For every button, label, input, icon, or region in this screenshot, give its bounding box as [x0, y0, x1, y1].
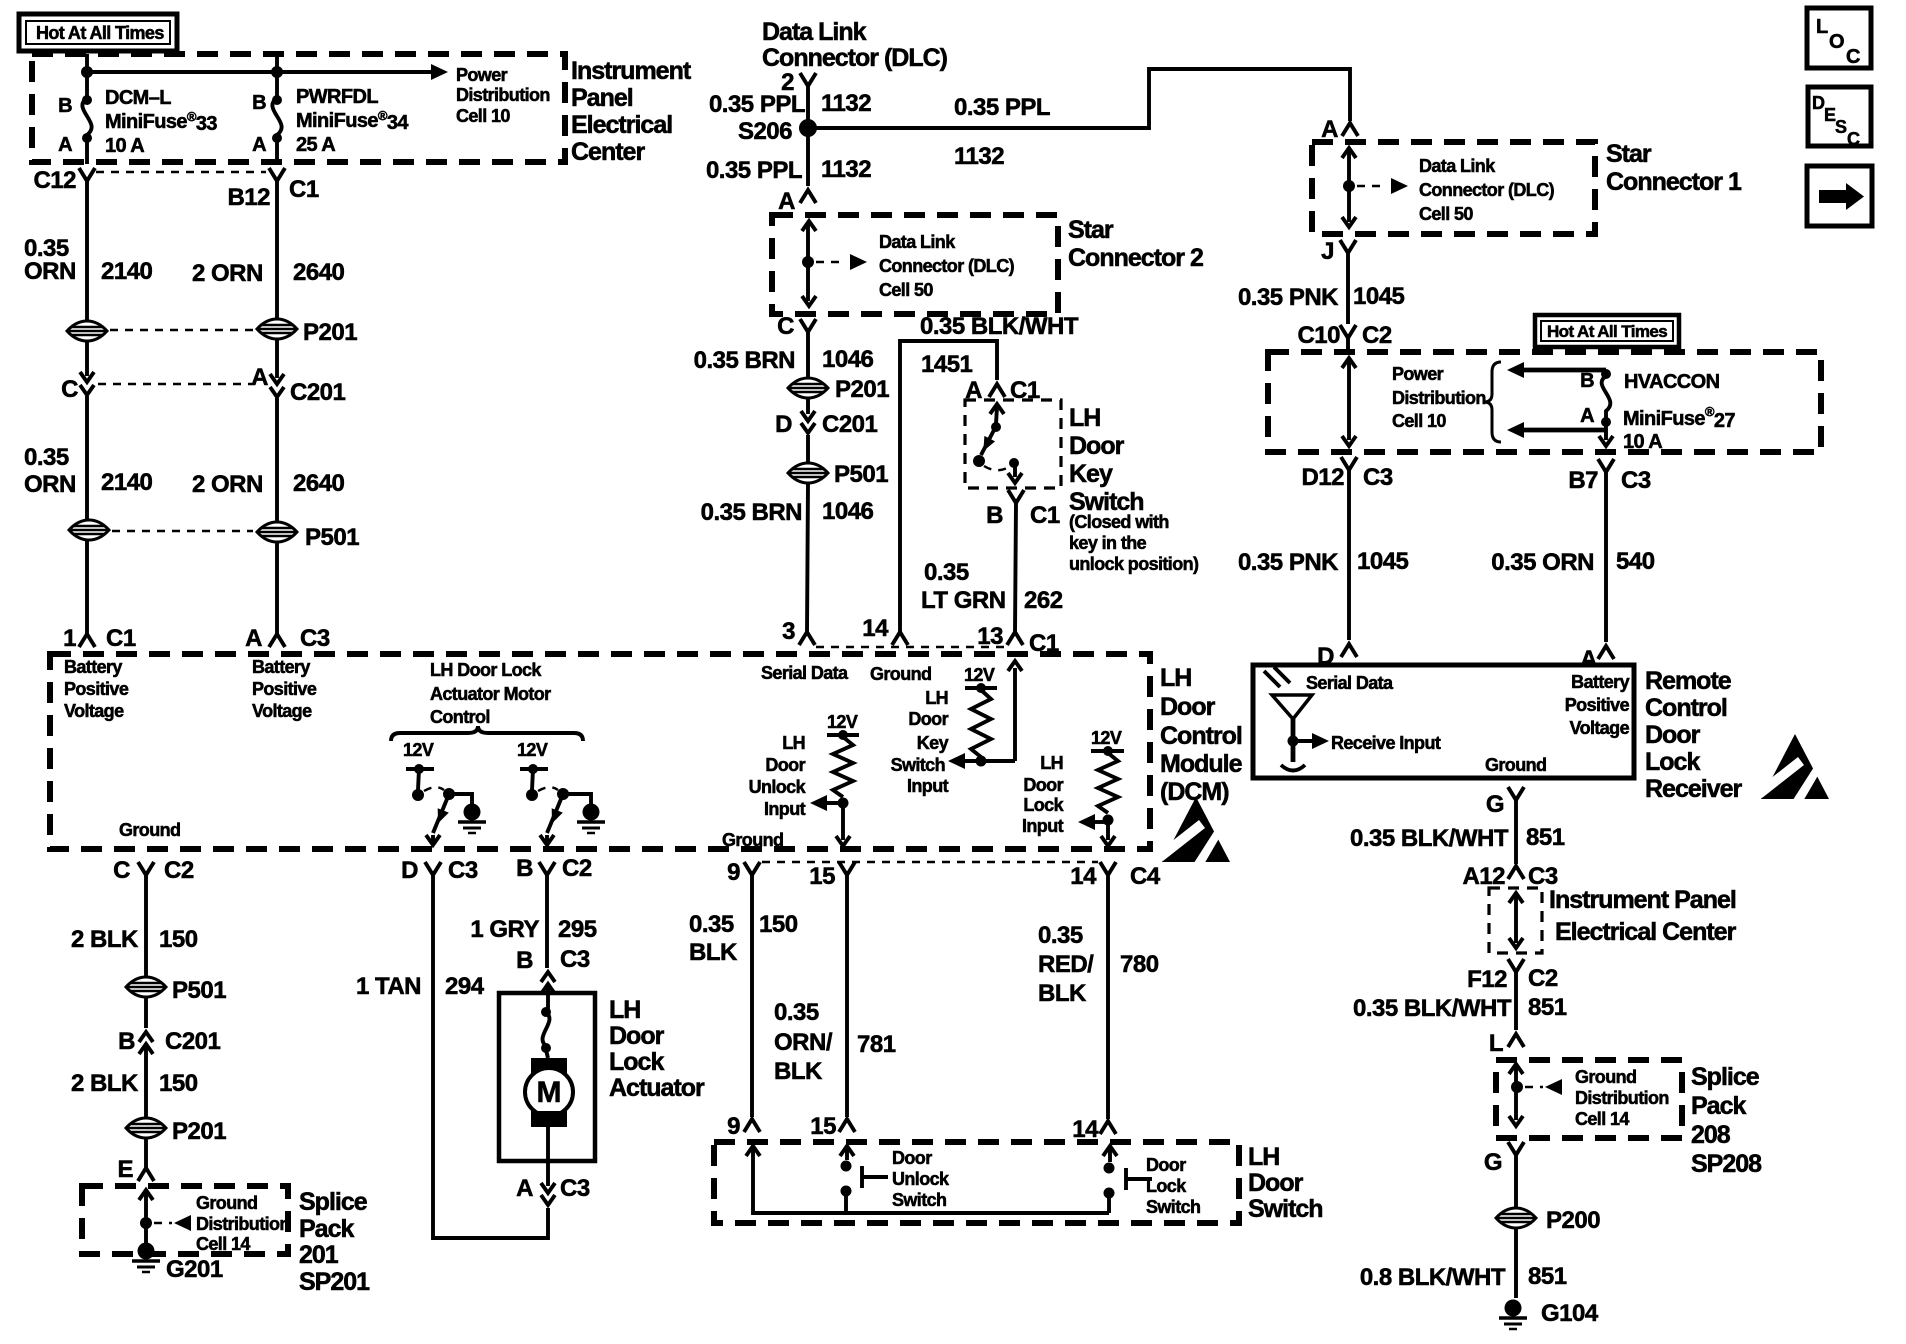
svg-text:LH Door Lock: LH Door Lock — [430, 660, 542, 680]
svg-text:A: A — [252, 134, 266, 156]
svg-text:Input: Input — [764, 799, 806, 819]
svg-text:0.35 BLK/WHT: 0.35 BLK/WHT — [1350, 825, 1509, 852]
svg-text:3: 3 — [782, 618, 795, 645]
svg-text:Door: Door — [1645, 721, 1701, 749]
svg-text:Control: Control — [430, 707, 490, 727]
wires down to DCM pins — [87, 540, 277, 634]
svg-text:Positive: Positive — [64, 679, 129, 699]
wire 1 TAN 294 — [356, 875, 548, 1238]
svg-text:12V: 12V — [827, 712, 858, 732]
svg-text:C201: C201 — [165, 1028, 221, 1055]
svg-text:P201: P201 — [172, 1118, 226, 1145]
wire 1 GRY 295 — [470, 875, 596, 968]
svg-text:G: G — [1484, 1149, 1502, 1176]
svg-text:Actuator Motor: Actuator Motor — [430, 684, 551, 704]
svg-text:B: B — [118, 1028, 135, 1055]
svg-text:Lock: Lock — [609, 1048, 664, 1076]
label Data Link Connector (DLC) Cell 50 in box 1 — [1419, 156, 1555, 224]
pass-through wire star connector 1 — [1342, 148, 1408, 227]
svg-text:Key: Key — [917, 733, 949, 753]
svg-text:0.35 ORN: 0.35 ORN — [1491, 549, 1594, 576]
svg-text:Input: Input — [907, 776, 949, 796]
svg-text:208: 208 — [1691, 1121, 1731, 1149]
wire 0.35 ORN/BLK 781 — [774, 875, 896, 1117]
connector C12 pin — [33, 167, 95, 194]
svg-text:LH: LH — [609, 996, 640, 1024]
svg-text:Ground: Ground — [196, 1193, 257, 1213]
svg-text:1132: 1132 — [821, 90, 871, 117]
svg-text:9: 9 — [727, 1113, 740, 1140]
svg-text:Door: Door — [1023, 775, 1063, 795]
svg-text:BLK: BLK — [774, 1058, 823, 1085]
ground G201 — [132, 1243, 223, 1284]
svg-text:Door: Door — [908, 709, 948, 729]
svg-text:C201: C201 — [822, 411, 878, 438]
splice pack 201 dashed box — [82, 1186, 288, 1254]
arrow legend box — [1807, 166, 1872, 226]
svg-text:1045: 1045 — [1357, 548, 1409, 575]
svg-text:LH: LH — [1160, 664, 1191, 692]
svg-text:S: S — [1835, 117, 1847, 137]
pin F12 C2 — [1467, 959, 1558, 993]
brace grouping fuse arrows — [1484, 362, 1501, 442]
svg-text:Hot At All Times: Hot At All Times — [36, 23, 164, 43]
svg-text:C2: C2 — [164, 857, 194, 884]
svg-text:MiniFuse®33: MiniFuse®33 — [105, 109, 217, 135]
LH door key switch dashed box — [965, 400, 1061, 488]
svg-text:9: 9 — [727, 859, 740, 886]
label Battery Positive Voltage in receiver — [1565, 672, 1630, 738]
connector A C3 out of actuator — [516, 1161, 590, 1205]
svg-text:Splice: Splice — [1691, 1063, 1760, 1091]
resistor LH Door Key Switch Input — [891, 661, 1022, 796]
svg-text:G: G — [1486, 791, 1504, 818]
svg-text:0.35 PNK: 0.35 PNK — [1238, 549, 1339, 576]
svg-text:LH: LH — [1040, 753, 1063, 773]
svg-text:C12: C12 — [33, 167, 76, 194]
svg-text:A: A — [778, 188, 795, 215]
svg-text:294: 294 — [445, 973, 485, 1000]
svg-text:P501: P501 — [834, 461, 888, 488]
hot-at-all-times box 1 — [19, 14, 177, 51]
arrow feed top from fuse B — [1507, 362, 1606, 378]
svg-text:C: C — [61, 376, 78, 403]
svg-text:B: B — [252, 92, 266, 114]
connector P201 center — [788, 376, 889, 403]
svg-text:12V: 12V — [517, 740, 548, 760]
svg-text:C2: C2 — [1528, 965, 1558, 992]
svg-text:Key: Key — [1069, 460, 1113, 488]
svg-text:Distribution: Distribution — [196, 1214, 290, 1234]
svg-text:C: C — [777, 313, 794, 340]
svg-text:P501: P501 — [172, 977, 226, 1004]
fuse PWRFDL MiniFuse 34 25A — [252, 54, 409, 164]
svg-text:14: 14 — [862, 615, 889, 642]
svg-text:(Closed with: (Closed with — [1069, 512, 1169, 532]
svg-text:B: B — [1580, 370, 1594, 392]
svg-text:0.35 PPL: 0.35 PPL — [709, 91, 805, 118]
pin 15 into door switch — [810, 1113, 855, 1140]
wire inside splice pack 208 — [1509, 1064, 1562, 1126]
svg-text:Power: Power — [1392, 364, 1444, 384]
svg-text:Door: Door — [1248, 1169, 1304, 1197]
svg-text:0.35: 0.35 — [924, 559, 969, 586]
label Star Connector 1 — [1606, 140, 1742, 196]
label LH Door Key Switch — [1069, 404, 1144, 516]
pin 15 below DCM — [809, 862, 855, 890]
svg-text:Lock: Lock — [1023, 795, 1064, 815]
switch unlock relay right 12V — [517, 740, 605, 845]
label Data Link Connector (DLC) Cell 50 in box 2 — [879, 232, 1015, 300]
pin D into receiver — [1317, 643, 1357, 670]
svg-text:0.35 BLK/WHT: 0.35 BLK/WHT — [1353, 995, 1512, 1022]
svg-text:B: B — [516, 855, 533, 882]
svg-text:key in the: key in the — [1069, 533, 1147, 553]
svg-text:Actuator: Actuator — [609, 1074, 705, 1102]
label Battery Positive Voltage 1 — [64, 657, 129, 721]
svg-text:L: L — [1816, 16, 1828, 38]
arrow feed bottom from fuse A — [1507, 422, 1606, 438]
svg-text:12V: 12V — [964, 665, 995, 685]
svg-text:0.35 BRN: 0.35 BRN — [694, 347, 795, 374]
svg-text:P501: P501 — [305, 524, 359, 551]
svg-text:C10: C10 — [1297, 322, 1340, 349]
label Splice Pack 208 SP208 — [1691, 1063, 1762, 1178]
wire 0.35 ORN 2140 lower — [24, 396, 153, 520]
wire 0.35 PNK 1045 upper — [1238, 253, 1405, 324]
ESD symbol at receiver — [1756, 734, 1829, 803]
svg-text:Receive Input: Receive Input — [1331, 733, 1441, 753]
connector B12 C1 pin — [96, 168, 319, 211]
svg-text:P201: P201 — [835, 376, 889, 403]
connector P201 single — [126, 1118, 226, 1145]
connector P201 left pair — [67, 319, 357, 346]
svg-text:Input: Input — [1022, 816, 1064, 836]
svg-text:295: 295 — [558, 916, 597, 943]
connector B C3 into actuator — [516, 946, 590, 994]
svg-text:Connector (DLC): Connector (DLC) — [762, 44, 948, 72]
svg-text:Star: Star — [1068, 216, 1114, 244]
svg-text:BLK: BLK — [1038, 980, 1087, 1007]
svg-text:1046: 1046 — [822, 346, 874, 373]
svg-text:RED/: RED/ — [1038, 951, 1094, 978]
wire inside splice pack 201 — [139, 1190, 191, 1246]
pin 9 below DCM — [727, 859, 760, 886]
pin B C2 below DCM — [516, 855, 592, 882]
svg-text:Connector (DLC): Connector (DLC) — [1419, 180, 1555, 200]
svg-text:Cell 14: Cell 14 — [196, 1234, 250, 1254]
connector P501 left pair — [69, 520, 359, 551]
pin 14 into door switch — [1072, 1116, 1116, 1143]
svg-text:LH: LH — [925, 688, 948, 708]
svg-text:Door: Door — [1069, 432, 1125, 460]
svg-text:0.35: 0.35 — [24, 444, 69, 471]
svg-text:C: C — [1846, 46, 1860, 68]
svg-text:Lock: Lock — [1645, 748, 1700, 776]
svg-text:Switch: Switch — [1146, 1197, 1200, 1217]
svg-text:780: 780 — [1120, 951, 1159, 978]
svg-text:C1: C1 — [106, 625, 136, 652]
instrument panel electrical center dashed box right — [1268, 352, 1821, 452]
svg-text:Distribution: Distribution — [1392, 388, 1486, 408]
svg-text:1 TAN: 1 TAN — [356, 973, 421, 1000]
label Star Connector 2 — [1068, 216, 1203, 272]
label LH Door Lock Actuator Motor Control — [430, 660, 551, 727]
door unlock switch — [840, 1146, 950, 1213]
svg-text:0.35: 0.35 — [689, 911, 734, 938]
wire 0.35 BRN 1046 lower — [701, 483, 874, 632]
key switch internals — [973, 404, 1022, 483]
svg-text:10 A: 10 A — [105, 135, 144, 157]
switch lock relay left 12V — [403, 740, 486, 845]
svg-text:C201: C201 — [290, 379, 346, 406]
label LH Door Lock Actuator — [609, 996, 705, 1102]
svg-text:C1: C1 — [1029, 630, 1059, 657]
svg-text:Ground: Ground — [870, 664, 931, 684]
label closed with key note — [1069, 512, 1199, 574]
svg-text:Connector 2: Connector 2 — [1068, 244, 1203, 272]
svg-text:Cell 14: Cell 14 — [1575, 1109, 1629, 1129]
svg-text:Positive: Positive — [252, 679, 317, 699]
svg-text:150: 150 — [159, 1070, 198, 1097]
pin 2 of DLC — [781, 69, 816, 96]
wire 2 BLK 150 lower — [71, 1046, 198, 1118]
wire 0.35 ORN 540 — [1491, 472, 1654, 642]
connector P200 — [1496, 1207, 1600, 1234]
instrument panel electrical center small dashed box — [1489, 888, 1542, 953]
pin A into star connector 1 — [1321, 116, 1358, 143]
brace over actuator motor control switches — [391, 726, 583, 741]
svg-text:SP208: SP208 — [1691, 1150, 1762, 1178]
svg-text:10 A: 10 A — [1623, 431, 1662, 453]
pin 3 at DCM top — [782, 618, 815, 645]
wire 0.35 PNK 1045 lower — [1238, 470, 1409, 640]
connector P501 single — [126, 977, 226, 1004]
svg-text:Cell 50: Cell 50 — [879, 280, 933, 300]
connector C201 crossing C / A — [61, 364, 345, 406]
pin 13 C1 at DCM top — [816, 623, 1059, 657]
svg-text:BLK: BLK — [689, 939, 738, 966]
label Remote Control Door Lock Receiver — [1645, 667, 1743, 803]
svg-text:2 BLK: 2 BLK — [71, 1070, 139, 1097]
svg-text:LT GRN: LT GRN — [921, 587, 1006, 614]
pin D12 C3 below IPEC — [1301, 457, 1392, 491]
svg-text:G104: G104 — [1541, 1300, 1599, 1327]
svg-text:LH: LH — [1248, 1143, 1279, 1171]
pin D C3 below DCM — [401, 857, 478, 884]
node junction dots on feed wire — [81, 66, 93, 78]
DESC legend box — [1808, 87, 1871, 149]
svg-text:Unlock: Unlock — [892, 1169, 950, 1189]
svg-text:12V: 12V — [403, 740, 434, 760]
svg-text:540: 540 — [1616, 548, 1655, 575]
pass-through wire star connector 2 — [802, 221, 867, 306]
svg-text:14: 14 — [1072, 1116, 1099, 1143]
wire 0.35 BRN 1046 upper — [694, 332, 874, 378]
wire 0.35 RED/BLK 780 — [1038, 875, 1159, 1119]
label Ground Distribution Cell 14 right — [1575, 1067, 1669, 1129]
svg-text:12V: 12V — [1091, 728, 1122, 748]
wire 2 BLK 150 upper — [71, 875, 198, 977]
svg-text:Electrical Center: Electrical Center — [1555, 918, 1737, 946]
svg-text:C3: C3 — [560, 946, 590, 973]
pin 14 C4 below DCM — [762, 862, 1161, 890]
svg-text:Unlock: Unlock — [749, 777, 807, 797]
svg-text:Pack: Pack — [299, 1215, 354, 1243]
pin C below star connector 2 — [777, 313, 816, 340]
svg-text:Hot At All Times: Hot At All Times — [1547, 322, 1667, 341]
svg-text:LH: LH — [782, 733, 805, 753]
label LH Door Switch — [1248, 1143, 1323, 1223]
svg-text:ORN/: ORN/ — [774, 1029, 833, 1056]
svg-text:Control: Control — [1645, 694, 1727, 722]
motor M symbol — [525, 1058, 573, 1161]
svg-text:Door: Door — [892, 1148, 932, 1168]
svg-text:PWRFDL: PWRFDL — [296, 86, 378, 108]
ground run wire inside door switch box — [746, 1146, 1109, 1213]
svg-text:D: D — [401, 857, 418, 884]
svg-text:Lock: Lock — [1146, 1176, 1187, 1196]
wire 0.35 LT GRN 262 — [921, 503, 1063, 632]
svg-text:P200: P200 — [1546, 1207, 1600, 1234]
pin C10 C2 into IPEC right — [1297, 322, 1391, 349]
svg-text:J: J — [1321, 238, 1334, 265]
instrument panel electrical center dashed box — [32, 54, 565, 162]
connector P501 center — [788, 435, 888, 488]
svg-text:O: O — [1829, 31, 1844, 53]
svg-text:2140: 2140 — [101, 469, 153, 496]
svg-text:1046: 1046 — [822, 498, 874, 525]
svg-text:C3: C3 — [1363, 464, 1393, 491]
svg-text:Voltage: Voltage — [64, 701, 124, 721]
svg-text:A: A — [516, 1175, 533, 1202]
svg-text:Ground: Ground — [1485, 755, 1546, 775]
svg-text:Battery: Battery — [1571, 672, 1629, 692]
svg-text:unlock position): unlock position) — [1069, 554, 1199, 574]
svg-text:Instrument Panel: Instrument Panel — [1549, 886, 1736, 914]
svg-text:1045: 1045 — [1353, 283, 1405, 310]
svg-text:L: L — [1489, 1030, 1503, 1057]
svg-text:1 GRY: 1 GRY — [470, 916, 539, 943]
label Power Distribution Cell 10 — [456, 65, 550, 126]
pin A into star connector 2 — [778, 188, 816, 215]
svg-text:2 ORN: 2 ORN — [192, 260, 263, 287]
pin B7 C3 below IPEC — [1568, 459, 1651, 494]
svg-text:C: C — [113, 857, 130, 884]
svg-text:2640: 2640 — [293, 470, 345, 497]
svg-text:A: A — [251, 364, 268, 391]
svg-text:Splice: Splice — [299, 1188, 368, 1216]
star connector 1 dashed box — [1312, 142, 1595, 234]
svg-text:C4: C4 — [1130, 863, 1161, 890]
label Ground Distribution Cell 14 — [196, 1193, 290, 1254]
resistor LH Door Lock Input — [1022, 728, 1124, 846]
svg-text:0.8 BLK/WHT: 0.8 BLK/WHT — [1360, 1264, 1506, 1291]
splice pack 208 dashed box — [1496, 1060, 1682, 1138]
svg-text:C2: C2 — [1362, 322, 1392, 349]
svg-text:1132: 1132 — [821, 156, 871, 183]
label Instrument Panel Electrical Center — [571, 57, 692, 166]
svg-text:1: 1 — [63, 625, 76, 652]
pin J below star connector 1 — [1321, 238, 1356, 265]
svg-text:Switch: Switch — [1248, 1195, 1323, 1223]
pin G below receiver — [1486, 787, 1524, 818]
svg-text:851: 851 — [1528, 1263, 1567, 1290]
svg-text:B12: B12 — [227, 184, 270, 211]
pin A C1 into key switch — [965, 377, 1040, 404]
svg-text:Cell 10: Cell 10 — [1392, 411, 1446, 431]
wire 2 ORN 2640 lower — [192, 398, 345, 522]
svg-text:Ground: Ground — [722, 830, 783, 850]
svg-text:0.35 PNK: 0.35 PNK — [1238, 284, 1339, 311]
wire 0.35 PPL 1132 upper — [709, 86, 871, 186]
svg-text:2640: 2640 — [293, 259, 345, 286]
svg-text:F12: F12 — [1467, 966, 1507, 993]
svg-text:262: 262 — [1024, 587, 1063, 614]
wire 0.35 PPL 1132 lower — [706, 156, 871, 184]
svg-text:Electrical: Electrical — [571, 111, 672, 139]
wire 0.35 ORN 2140 upper — [24, 181, 153, 321]
svg-text:150: 150 — [159, 926, 198, 953]
svg-text:ORN: ORN — [24, 258, 76, 285]
fuse HVACCON MiniFuse 27 10A — [1580, 369, 1735, 453]
svg-text:A: A — [1321, 116, 1338, 143]
wire 0.35 BLK/WHT 851 upper — [1350, 800, 1565, 864]
svg-text:Switch: Switch — [891, 755, 945, 775]
svg-text:2 BLK: 2 BLK — [71, 926, 139, 953]
svg-text:15: 15 — [810, 1113, 836, 1140]
wire 0.35 BLK 150 — [689, 875, 798, 1117]
svg-text:Data Link: Data Link — [762, 18, 867, 46]
svg-text:MiniFuse®34: MiniFuse®34 — [296, 108, 409, 134]
svg-text:Data Link: Data Link — [1419, 156, 1496, 176]
svg-text:2 ORN: 2 ORN — [192, 471, 263, 498]
splice S206 — [738, 118, 817, 145]
svg-text:DCM–L: DCM–L — [105, 87, 171, 109]
svg-text:Door: Door — [1160, 693, 1216, 721]
svg-text:M: M — [537, 1076, 562, 1109]
svg-text:Positive: Positive — [1565, 695, 1630, 715]
ESD symbol at DCM — [1157, 797, 1230, 866]
svg-text:C: C — [1847, 129, 1860, 149]
svg-text:Instrument: Instrument — [571, 57, 692, 85]
svg-text:C1: C1 — [1030, 502, 1060, 529]
svg-text:C3: C3 — [300, 625, 330, 652]
svg-text:Remote: Remote — [1645, 667, 1732, 695]
svg-text:B: B — [516, 947, 533, 974]
svg-text:G201: G201 — [166, 1256, 223, 1283]
label LH Door Control Module (DCM) — [1160, 664, 1243, 806]
svg-text:Control: Control — [1160, 722, 1242, 750]
svg-text:Distribution: Distribution — [1575, 1088, 1669, 1108]
svg-text:Switch: Switch — [892, 1190, 946, 1210]
svg-text:Pack: Pack — [1691, 1092, 1746, 1120]
label Data Link Connector (DLC) top — [762, 18, 948, 72]
pin G below splice pack 208 — [1484, 1142, 1524, 1176]
svg-text:25 A: 25 A — [296, 134, 335, 156]
svg-text:B: B — [986, 502, 1003, 529]
svg-text:Door: Door — [1146, 1155, 1186, 1175]
resistor LH Door Unlock Input — [722, 712, 859, 850]
svg-text:Cell 10: Cell 10 — [456, 106, 510, 126]
svg-text:1451: 1451 — [921, 351, 973, 378]
svg-text:LH: LH — [1069, 404, 1100, 432]
door lock switch — [1103, 1146, 1200, 1217]
svg-text:781: 781 — [857, 1031, 896, 1058]
svg-text:Ground: Ground — [1575, 1067, 1636, 1087]
svg-text:Distribution: Distribution — [456, 85, 550, 105]
svg-text:A: A — [245, 625, 262, 652]
